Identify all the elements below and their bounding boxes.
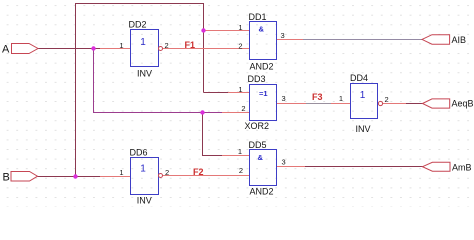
svg-text:DD3: DD3 <box>248 74 266 84</box>
svg-text:1: 1 <box>119 41 123 50</box>
svg-text:1: 1 <box>238 147 242 156</box>
svg-text:DD6: DD6 <box>130 148 148 158</box>
svg-text:&: & <box>259 25 265 34</box>
svg-text:2: 2 <box>239 166 243 175</box>
svg-text:XOR2: XOR2 <box>245 121 270 131</box>
svg-text:F2: F2 <box>193 167 204 177</box>
svg-text:1: 1 <box>360 90 366 101</box>
svg-text:B: B <box>3 172 10 184</box>
svg-text:3: 3 <box>282 94 286 103</box>
svg-text:1: 1 <box>140 164 146 175</box>
svg-text:3: 3 <box>281 31 285 40</box>
svg-text:1: 1 <box>119 168 123 177</box>
svg-text:AeqB: AeqB <box>452 99 474 109</box>
svg-text:AmB: AmB <box>452 163 472 173</box>
svg-text:F1: F1 <box>185 40 196 50</box>
svg-text:1: 1 <box>339 94 343 103</box>
svg-text:1: 1 <box>140 37 146 48</box>
svg-text:DD2: DD2 <box>129 20 147 30</box>
svg-text:AIB: AIB <box>452 35 467 45</box>
svg-text:F3: F3 <box>312 92 323 102</box>
svg-text:INV: INV <box>137 69 152 79</box>
svg-text:AND2: AND2 <box>250 62 274 72</box>
svg-text:2: 2 <box>165 168 169 177</box>
svg-text:1: 1 <box>238 85 242 94</box>
svg-text:DD4: DD4 <box>350 73 368 83</box>
svg-text:2: 2 <box>385 95 389 104</box>
svg-text:DD1: DD1 <box>249 12 267 22</box>
svg-text:2: 2 <box>241 104 245 113</box>
svg-text:=1: =1 <box>259 89 268 98</box>
svg-text:INV: INV <box>356 124 371 134</box>
svg-text:2: 2 <box>238 41 242 50</box>
svg-text:INV: INV <box>137 196 152 206</box>
svg-text:A: A <box>2 44 10 56</box>
svg-text:DD5: DD5 <box>249 140 267 150</box>
svg-text:1: 1 <box>238 23 242 32</box>
svg-text:2: 2 <box>165 41 169 50</box>
svg-text:AND2: AND2 <box>250 186 274 196</box>
svg-text:&: & <box>258 153 264 162</box>
svg-text:3: 3 <box>282 157 286 166</box>
